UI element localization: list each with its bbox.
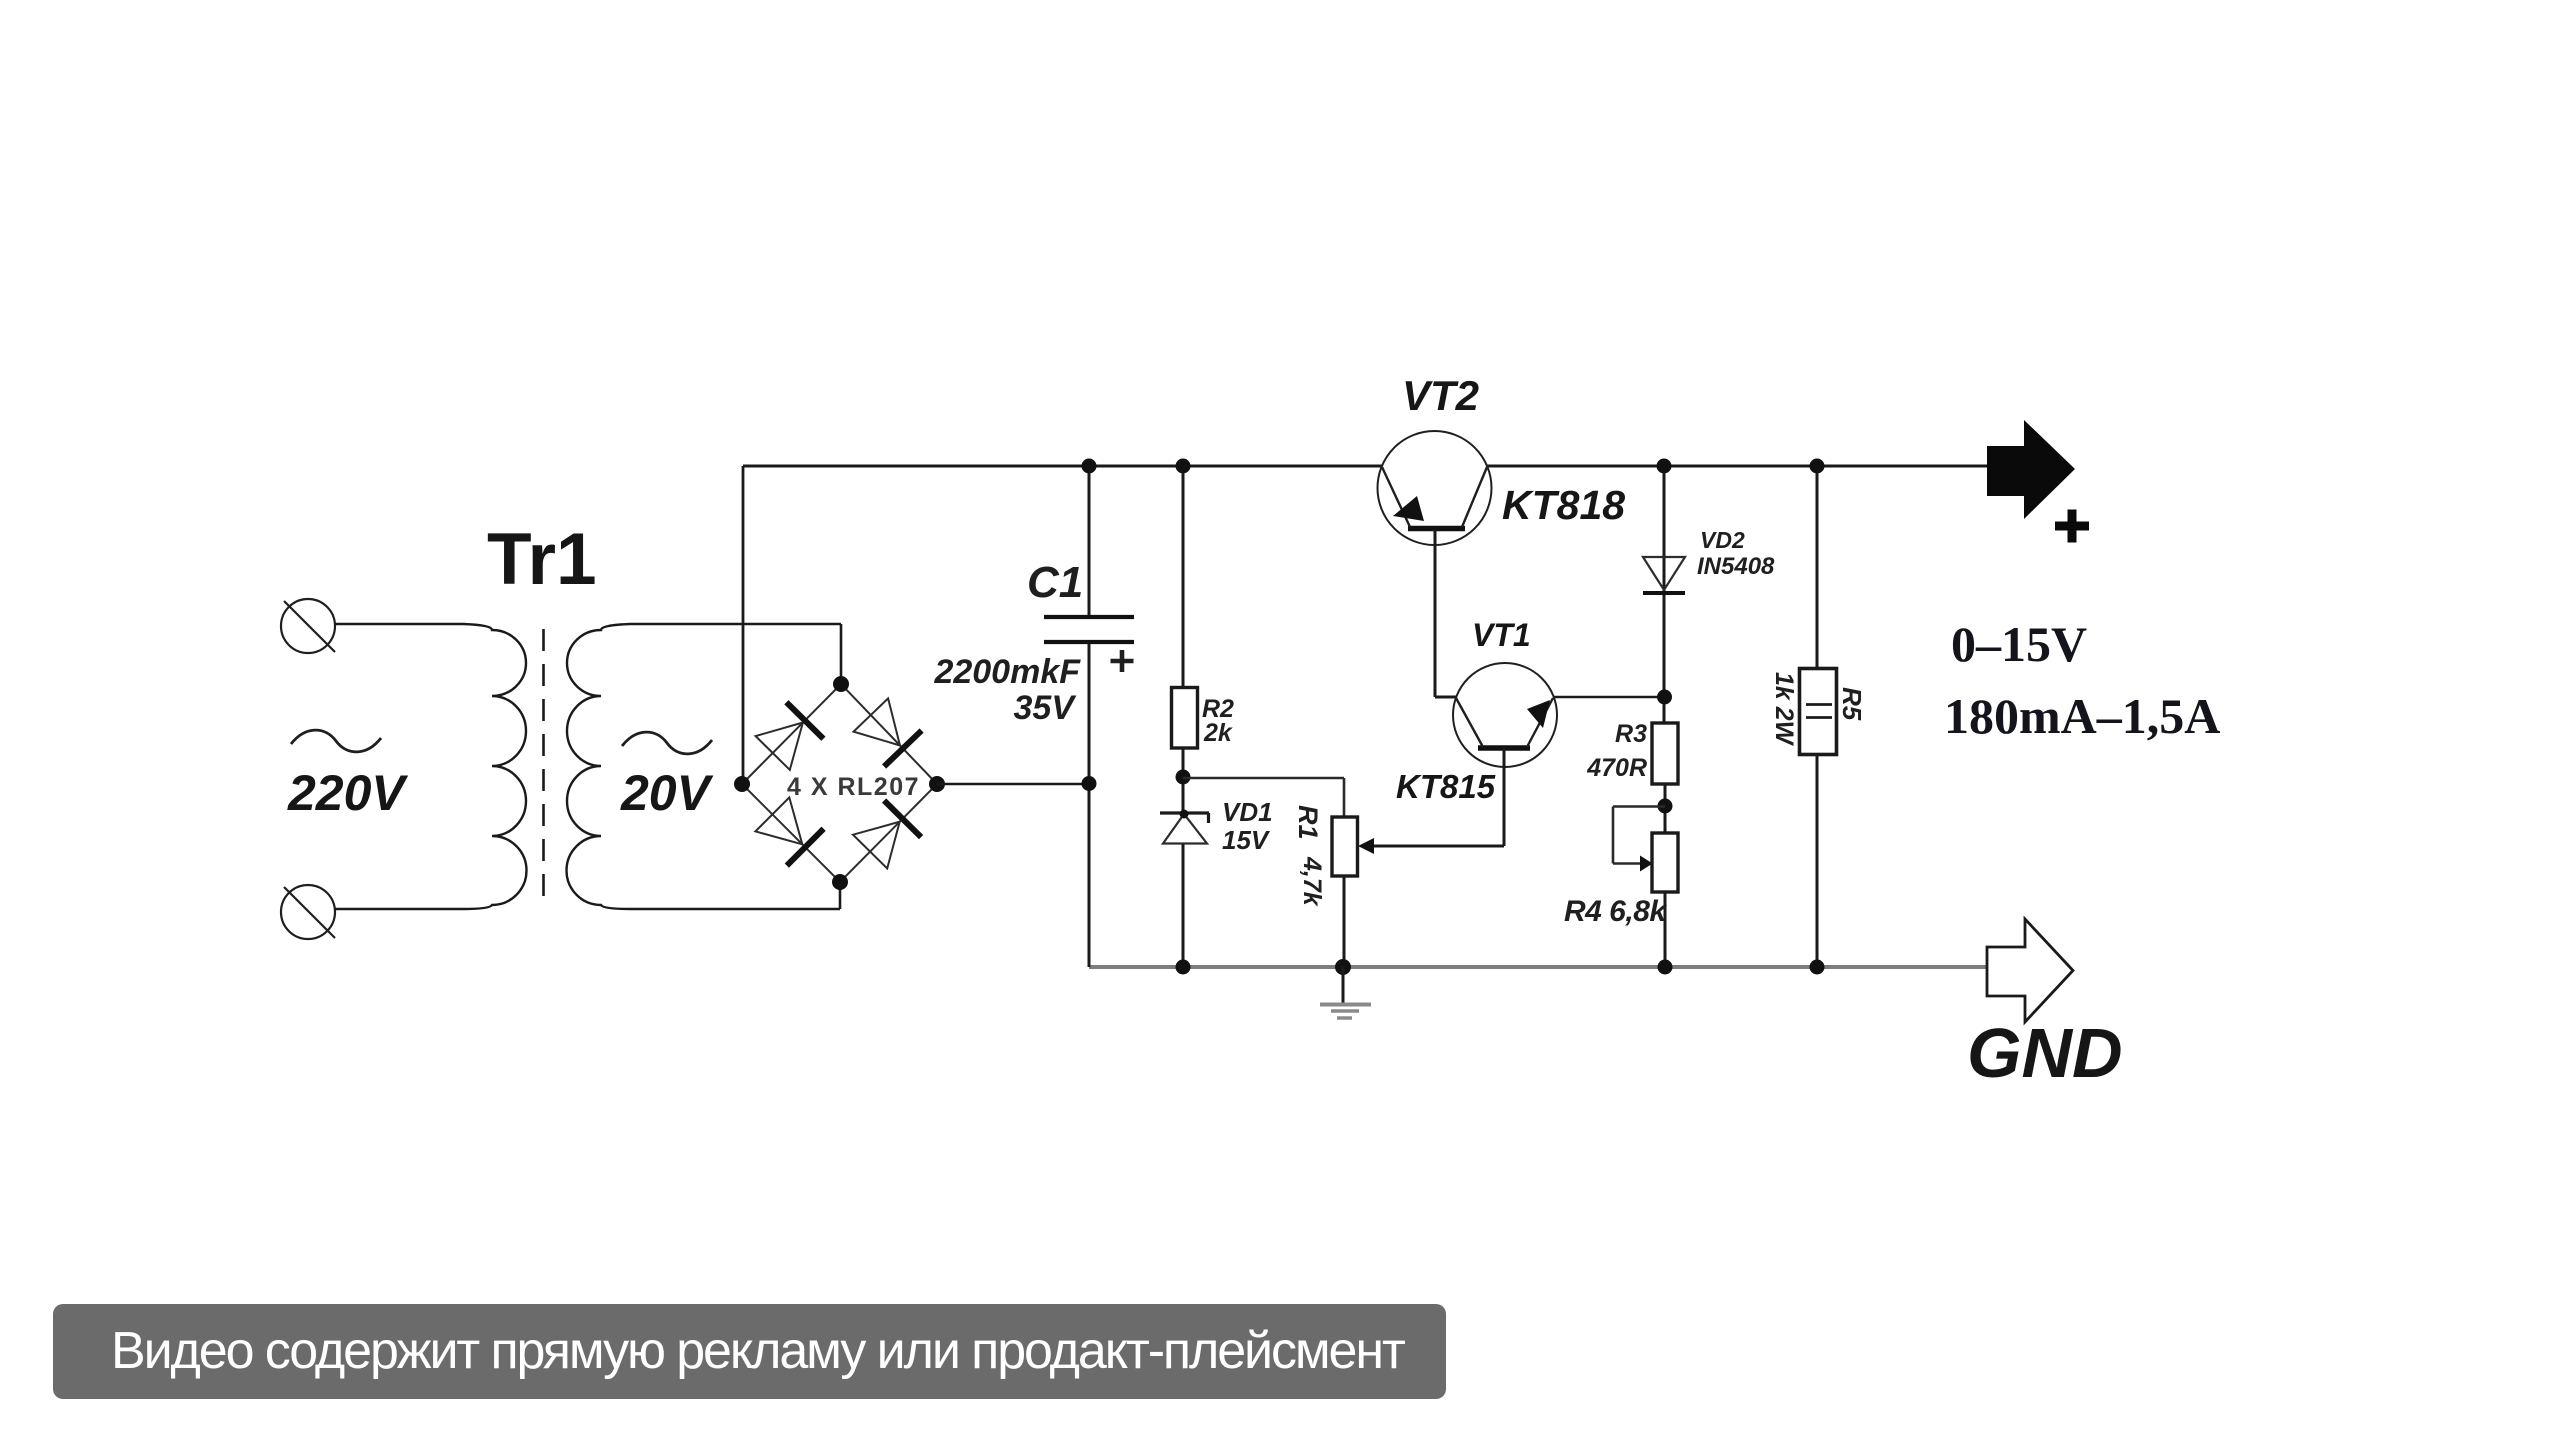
svg-text:IN5408: IN5408 — [1697, 553, 1775, 580]
svg-text:VT2: VT2 — [1402, 372, 1479, 419]
bridge diode D2 (top-right) — [854, 698, 922, 766]
GND arrow — [1987, 919, 2073, 1022]
bridge rectifier edges — [742, 684, 937, 882]
node R5 top — [1810, 459, 1825, 474]
svg-text:470R: 470R — [1586, 754, 1647, 782]
svg-text:0–15V: 0–15V — [1951, 616, 2087, 672]
zener diode VD1 — [1160, 810, 1209, 968]
wire VT1 emitter to node — [1554, 696, 1665, 699]
terminal X1 — [281, 599, 335, 653]
svg-text:R4 6,8k: R4 6,8k — [1564, 895, 1667, 928]
wire top rail right — [1487, 465, 1988, 468]
transistor VT2 — [1378, 431, 1492, 697]
svg-text:VD2: VD2 — [1700, 527, 1745, 553]
svg-text:35V: 35V — [1014, 689, 1078, 727]
svg-text:C1: C1 — [1027, 558, 1083, 607]
transistor VT1 — [1374, 663, 1557, 846]
bridge diode D4 (bottom-right) — [853, 801, 921, 869]
label plus — [2055, 510, 2089, 543]
wire bridge right to C1 — [937, 783, 1089, 786]
node R2 top — [1176, 459, 1191, 474]
node R4 bottom — [1658, 960, 1673, 975]
wire bridge plus riser — [742, 466, 745, 784]
capacitor C1 — [1044, 466, 1134, 967]
svg-text:15V: 15V — [1222, 825, 1271, 855]
wire secondary bottom to bridge — [631, 882, 840, 909]
svg-text:R5: R5 — [1837, 687, 1867, 721]
node VT1 emitter / R3 top — [1657, 690, 1672, 705]
svg-text:Видео содержит прямую рекламу: Видео содержит прямую рекламу или продак… — [111, 1322, 1405, 1380]
svg-text:1k 2W: 1k 2W — [1770, 672, 1798, 747]
svg-text:R1: R1 — [1293, 805, 1323, 840]
wire primary bottom — [334, 908, 463, 911]
bridge node left — [734, 776, 750, 792]
diode VD2 — [1643, 466, 1685, 724]
caption bar — [53, 1304, 1446, 1399]
AC tilde primary — [291, 730, 381, 752]
transformer Tr1 primary winding — [463, 624, 527, 909]
bridge node bottom — [832, 874, 848, 890]
svg-text:KT815: KT815 — [1396, 768, 1496, 805]
wire primary top — [334, 623, 463, 626]
svg-text:2k: 2k — [1203, 719, 1233, 747]
svg-text:20V: 20V — [620, 765, 714, 821]
svg-text:180mA–1,5A: 180mA–1,5A — [1944, 688, 2220, 744]
bridge node right — [929, 776, 945, 792]
svg-text:VD1: VD1 — [1222, 797, 1273, 827]
node VD2 top — [1657, 459, 1672, 474]
bridge node top — [833, 676, 849, 692]
svg-text:GND: GND — [1967, 1014, 2123, 1092]
output plus arrow — [1987, 420, 2075, 519]
terminal X2 — [281, 885, 335, 939]
bridge diode D1 (left-top) — [756, 702, 824, 770]
wire top rail left — [743, 465, 1382, 468]
node R1 bottom / ground junction — [1335, 959, 1351, 975]
transformer core — [542, 629, 545, 902]
node VD1 bottom — [1176, 960, 1191, 975]
node C1 bridge junction — [1082, 776, 1097, 791]
svg-text:4 X RL207: 4 X RL207 — [787, 773, 920, 801]
wire bottom rail — [1089, 965, 1988, 969]
svg-text:220V: 220V — [287, 765, 408, 821]
node R5 bottom — [1810, 960, 1825, 975]
bridge diode D3 (left-bottom) — [755, 797, 823, 865]
potentiometer R1 — [1332, 817, 1374, 967]
potentiometer R4 — [1613, 807, 1678, 968]
wire R2 node to R1 top — [1183, 778, 1344, 818]
resistor R5 — [1800, 466, 1837, 967]
svg-text:VT1: VT1 — [1472, 617, 1531, 653]
node R2 bottom junction — [1176, 770, 1191, 785]
wire secondary top to bridge — [631, 624, 841, 684]
svg-text:4,7k: 4,7k — [1298, 856, 1326, 907]
node C1 top — [1082, 459, 1097, 474]
transformer Tr1 secondary winding — [567, 624, 632, 909]
svg-text:Tr1: Tr1 — [487, 519, 597, 600]
svg-text:R3: R3 — [1615, 720, 1647, 748]
resistor R2 — [1172, 466, 1198, 813]
svg-text:2200mkF: 2200mkF — [933, 653, 1081, 691]
resistor R3 — [1652, 723, 1678, 833]
ground — [1320, 967, 1371, 1018]
node R3 bottom — [1658, 799, 1673, 814]
svg-text:KT818: KT818 — [1502, 482, 1625, 528]
AC tilde secondary — [622, 732, 712, 754]
